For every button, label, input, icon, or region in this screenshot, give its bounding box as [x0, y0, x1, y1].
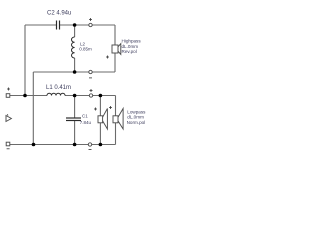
- wire bottom rail: [10, 144, 116, 146]
- wire C1 bottom lead: [74, 121, 76, 145]
- svg-text:0.85m: 0.85m: [79, 47, 92, 52]
- wire left speaker feed: [99, 96, 101, 116]
- capacitor C1: [66, 118, 81, 121]
- wire L2 top lead: [74, 25, 76, 37]
- svg-text:Rev.pol: Rev.pol: [122, 49, 137, 54]
- wire C1 top lead: [74, 96, 76, 118]
- junction node top (C2/L2): [73, 23, 77, 27]
- wire highpass return vertical: [32, 72, 34, 145]
- terminal input minus: [6, 142, 10, 149]
- terminal woofer plus: [89, 89, 92, 97]
- terminal input plus: [6, 88, 10, 98]
- svg-text:Norm.pol: Norm.pol: [127, 120, 146, 125]
- junction node left speaker feed: [99, 94, 103, 98]
- junction node highpass return / bottom rail: [32, 143, 36, 147]
- svg-text:Lowpass: Lowpass: [127, 109, 146, 114]
- terminal woofer minus: [88, 143, 91, 150]
- wire tweeter return vertical: [114, 53, 116, 72]
- inductor L2: [72, 37, 75, 58]
- wire mid rail left: [10, 95, 47, 97]
- wire top rail right of C2: [60, 24, 115, 26]
- svg-text:L1 0.41m: L1 0.41m: [46, 85, 71, 91]
- junction node input branch: [23, 94, 27, 98]
- wire top rail left of C2: [25, 24, 56, 26]
- wire right speaker feed: [115, 96, 117, 116]
- speaker highpass tweeter: [106, 44, 121, 59]
- speaker lowpass left: [94, 108, 107, 130]
- wire mid rail right of L1: [65, 95, 116, 97]
- svg-text:dL.0mm: dL.0mm: [127, 115, 144, 120]
- inductor L1: [47, 93, 65, 95]
- wire tweeter return rail: [33, 71, 115, 73]
- junction node C1 bottom: [73, 143, 77, 147]
- junction node left speaker return: [99, 143, 103, 147]
- svg-text:C2 4.94u: C2 4.94u: [47, 11, 71, 17]
- svg-text:Highpass: Highpass: [122, 38, 142, 43]
- junction node L1 / C1: [73, 94, 77, 98]
- junction node tweeter return / L2: [73, 70, 77, 74]
- wire left speaker return: [99, 123, 101, 145]
- terminal tweeter minus: [89, 70, 92, 78]
- wire L2 bottom lead: [74, 58, 76, 72]
- svg-text:C1: C1: [82, 114, 88, 119]
- speaker lowpass right: [109, 106, 123, 129]
- terminal tweeter plus: [89, 18, 92, 27]
- svg-text:dL.0mm: dL.0mm: [122, 44, 139, 49]
- svg-text:7.84u: 7.84u: [80, 120, 92, 125]
- wire right speaker return: [115, 123, 117, 145]
- wire left vertical input to top rail: [24, 25, 26, 96]
- capacitor C2: [57, 21, 60, 30]
- wire tweeter feed vertical: [114, 25, 116, 45]
- input signal arrow: [6, 114, 11, 121]
